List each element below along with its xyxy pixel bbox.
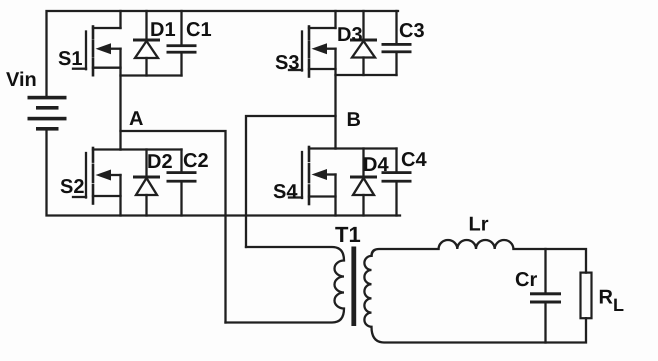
- svg-text:C1: C1: [186, 19, 212, 41]
- svg-text:S3: S3: [275, 52, 299, 74]
- svg-text:Lr: Lr: [469, 214, 489, 236]
- svg-text:R: R: [599, 287, 614, 309]
- svg-text:L: L: [613, 295, 624, 315]
- svg-text:A: A: [129, 108, 143, 130]
- svg-text:B: B: [347, 109, 361, 131]
- svg-text:Vin: Vin: [6, 69, 37, 91]
- svg-text:D3: D3: [337, 24, 363, 46]
- svg-text:Cr: Cr: [515, 269, 537, 291]
- svg-text:S4: S4: [273, 181, 298, 203]
- svg-text:C3: C3: [399, 20, 425, 42]
- svg-text:D1: D1: [150, 19, 176, 41]
- svg-text:S2: S2: [60, 176, 84, 198]
- svg-text:S1: S1: [58, 48, 82, 70]
- svg-text:T1: T1: [335, 222, 361, 247]
- svg-text:D2: D2: [147, 151, 173, 173]
- svg-text:C2: C2: [183, 150, 209, 172]
- svg-text:D4: D4: [363, 154, 389, 176]
- svg-text:C4: C4: [401, 149, 427, 171]
